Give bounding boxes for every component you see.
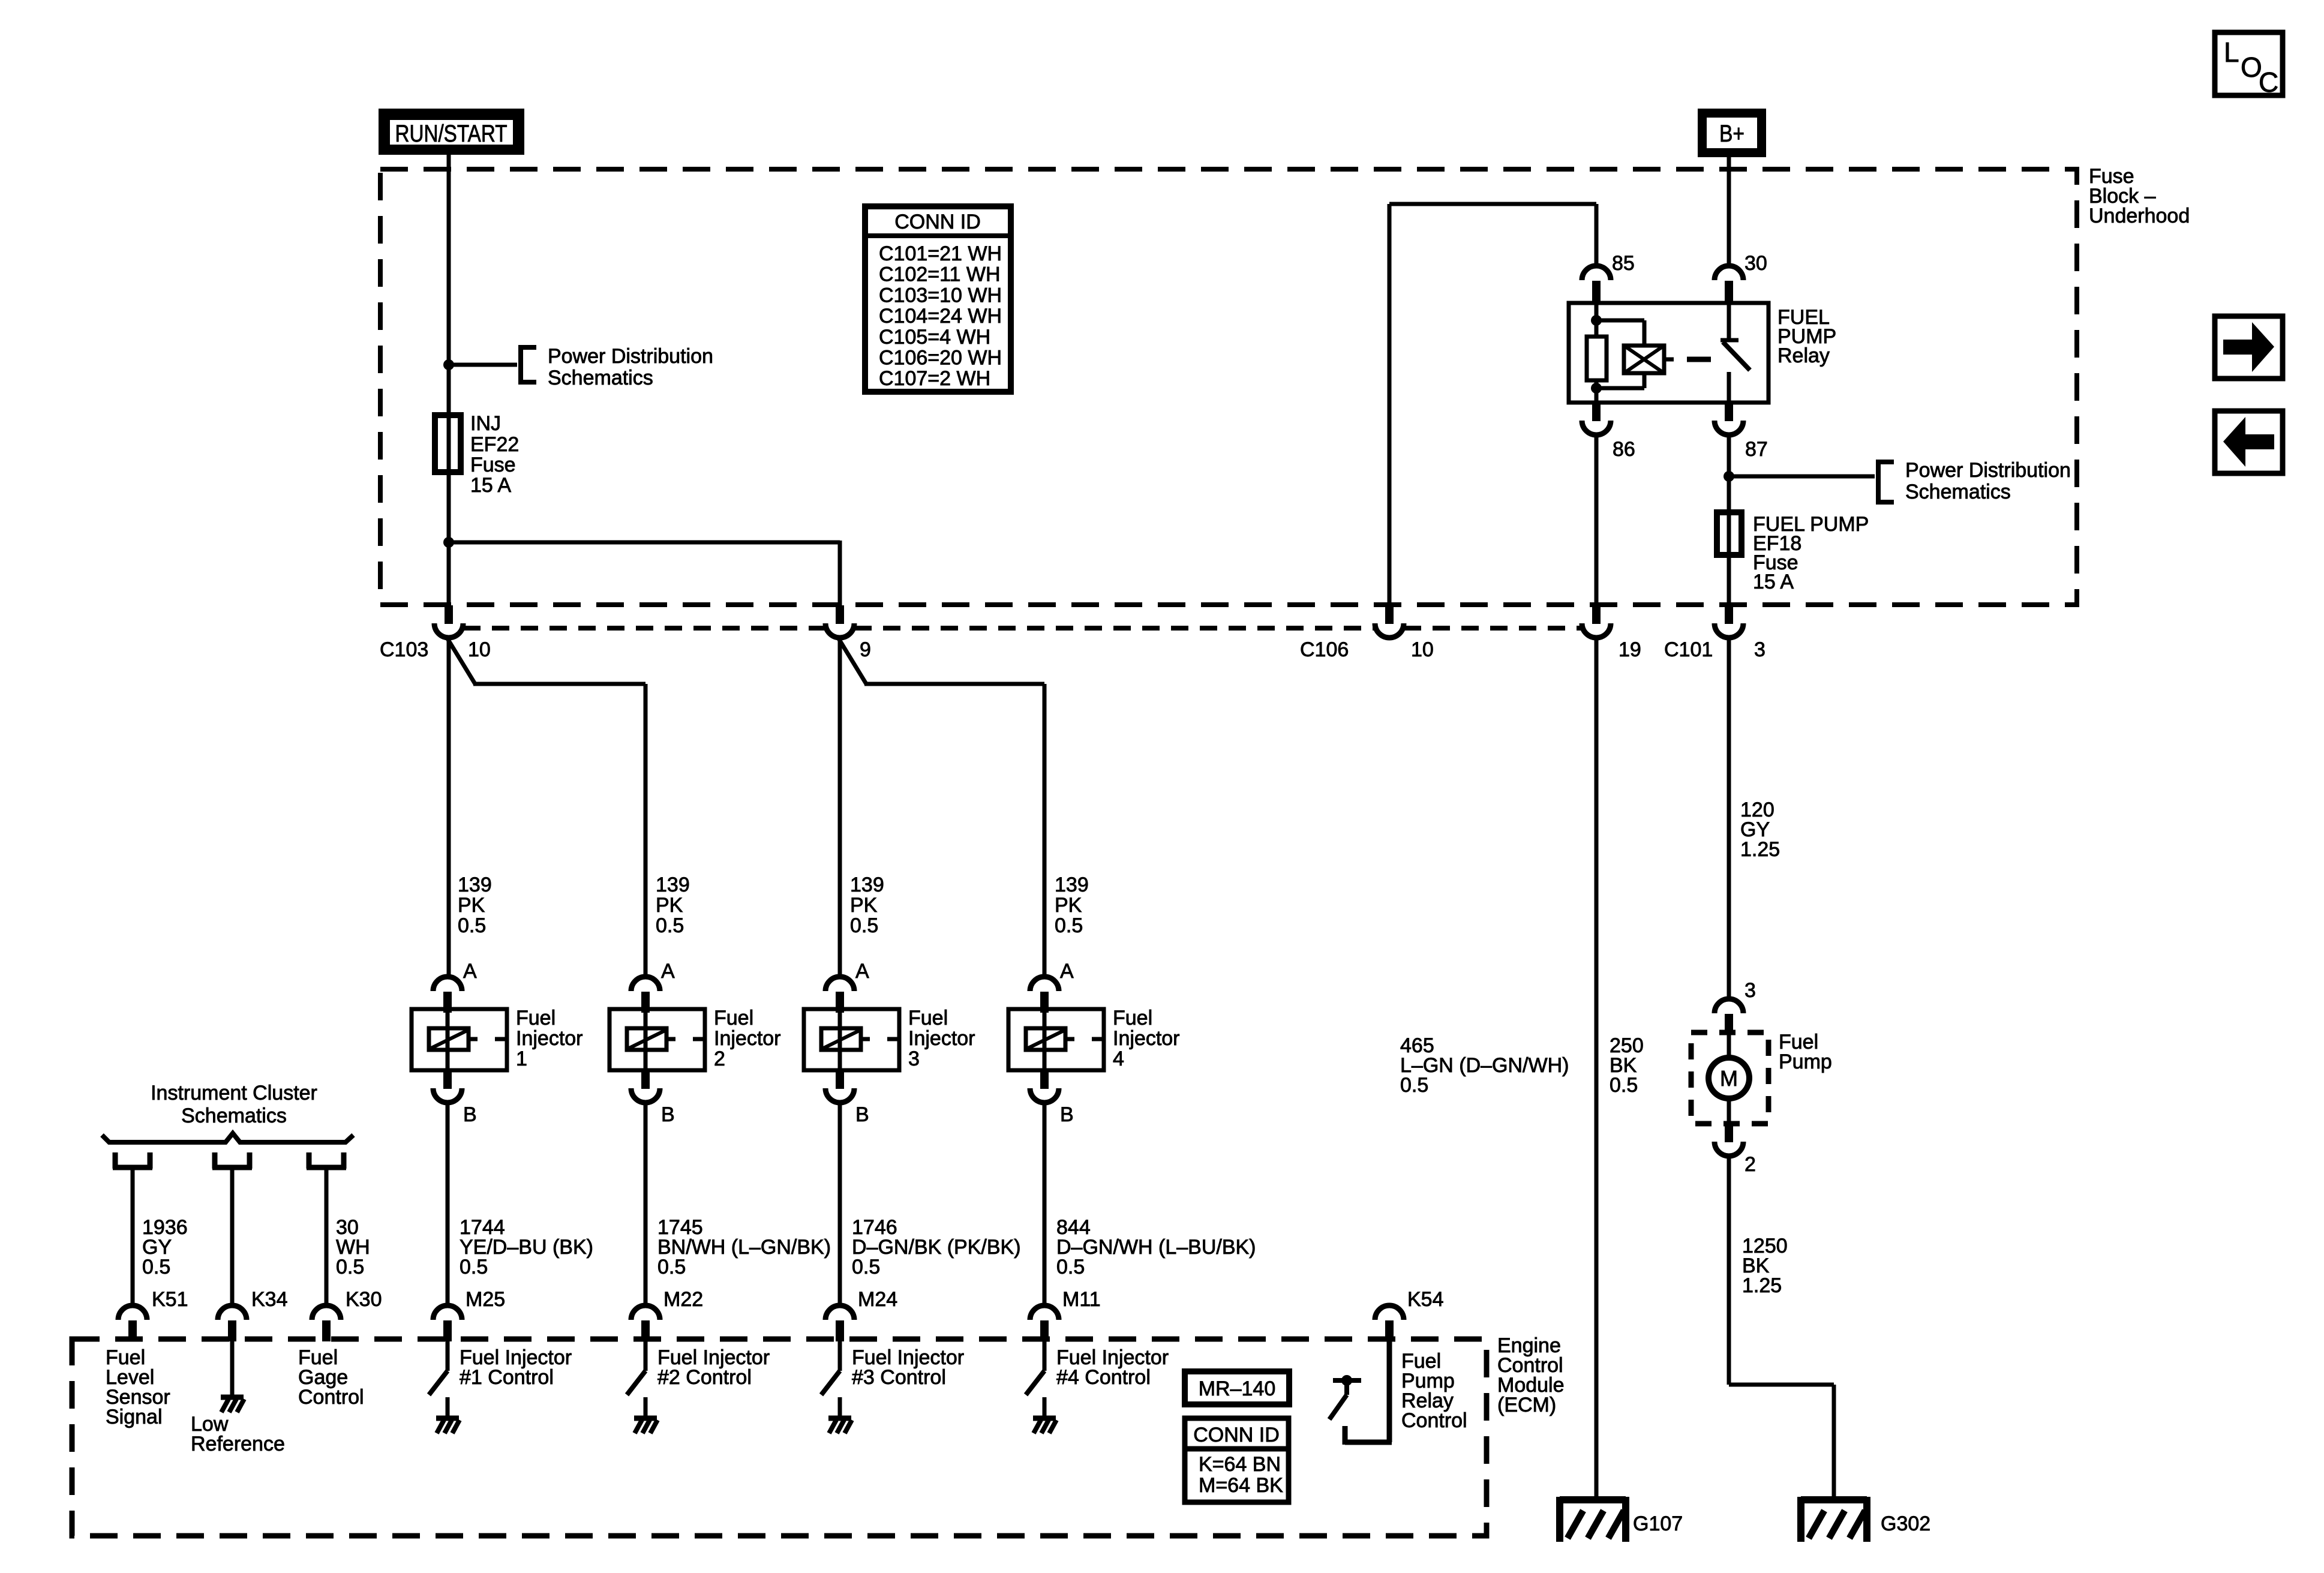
svg-text:A: A — [463, 960, 477, 983]
svg-text:Fuse: Fuse — [470, 454, 516, 476]
svg-text:139: 139 — [656, 873, 690, 896]
svg-text:1.25: 1.25 — [1740, 838, 1780, 861]
svg-text:B: B — [463, 1103, 477, 1126]
svg-text:CONN ID: CONN ID — [894, 211, 981, 233]
svg-text:MR–140: MR–140 — [1199, 1377, 1276, 1400]
page locator LOC box — [2215, 32, 2283, 98]
svg-text:86: 86 — [1613, 438, 1635, 461]
svg-text:G107: G107 — [1633, 1512, 1683, 1535]
label Fuel Gage Control — [298, 1346, 364, 1409]
connector injector 3 pin B — [825, 1070, 869, 1126]
ground G302 — [1801, 1497, 1930, 1542]
svg-text:Injector: Injector — [516, 1027, 583, 1050]
svg-text:0.5: 0.5 — [460, 1256, 488, 1278]
svg-text:M24: M24 — [858, 1288, 897, 1311]
svg-text:Injector: Injector — [1113, 1027, 1180, 1050]
connector C103 pin 10 — [380, 605, 491, 661]
label Fuel Injector #2 Control — [657, 1346, 770, 1389]
switch fuel injector #2 driver — [627, 1339, 645, 1416]
wire relay pin 85 feed (from C106 riser) — [1389, 204, 1596, 607]
label Fuel Injector 3 — [908, 1007, 975, 1070]
svg-text:B: B — [1060, 1103, 1074, 1126]
svg-text:M22: M22 — [663, 1288, 703, 1311]
svg-text:Underhood: Underhood — [2089, 205, 2190, 227]
svg-text:M25: M25 — [466, 1288, 505, 1311]
svg-text:Injector: Injector — [908, 1027, 975, 1050]
ground injector #2 driver — [634, 1418, 657, 1433]
svg-text:C101: C101 — [1664, 638, 1713, 661]
svg-text:C105=4 WH: C105=4 WH — [879, 326, 990, 349]
svg-text:C: C — [2259, 67, 2278, 98]
table CONN ID (ECM) — [1185, 1418, 1289, 1502]
svg-text:EF22: EF22 — [470, 433, 519, 456]
svg-text:19: 19 — [1619, 638, 1641, 661]
connector ECM pin K54 — [1375, 1288, 1444, 1341]
node junction feed to connector 9 branch — [443, 537, 454, 548]
switch fuel injector #1 driver — [429, 1339, 448, 1416]
svg-text:Signal: Signal — [106, 1406, 163, 1428]
svg-text:C104=24 WH: C104=24 WH — [879, 305, 1002, 328]
fuel injector 4 — [1008, 1009, 1104, 1070]
ground injector #1 driver — [436, 1418, 460, 1433]
svg-text:K54: K54 — [1407, 1288, 1444, 1311]
svg-text:Instrument Cluster: Instrument Cluster — [151, 1082, 317, 1104]
wire pin 86 down to C106 row — [1595, 435, 1599, 607]
wire K51 fuel level sensor signal — [131, 1170, 135, 1307]
svg-text:Control: Control — [1401, 1409, 1467, 1432]
switch fuel injector #3 driver — [821, 1339, 840, 1416]
connector pin 19 — [1582, 605, 1641, 661]
power symbol RUN/START — [383, 113, 520, 151]
svg-text:0.5: 0.5 — [656, 914, 684, 937]
svg-text:10: 10 — [1411, 638, 1434, 661]
svg-text:A: A — [855, 960, 869, 983]
label FUEL PUMP Relay — [1777, 306, 1836, 367]
svg-text:Power Distribution: Power Distribution — [1905, 459, 2071, 482]
node junction to Power Distribution tap — [443, 359, 454, 370]
wire RUN/START feed down to C103 — [447, 155, 451, 607]
svg-text:Schematics: Schematics — [181, 1104, 287, 1127]
svg-text:PK: PK — [1055, 894, 1082, 917]
svg-text:85: 85 — [1612, 252, 1635, 275]
connector ECM pin M11 — [1030, 1288, 1101, 1341]
connector ECM pin M24 — [825, 1288, 897, 1341]
svg-text:#2 Control: #2 Control — [657, 1366, 752, 1389]
svg-text:3: 3 — [1754, 638, 1765, 661]
connector pin 9 — [825, 605, 871, 661]
power symbol B+ — [1703, 113, 1762, 153]
dotted in-line connector line — [463, 626, 1582, 631]
connector ECM pin M22 — [631, 1288, 703, 1341]
svg-text:0.5: 0.5 — [1610, 1074, 1638, 1097]
label wire 844 D–GN/WH (L–BU/BK) 0.5 — [1056, 1216, 1256, 1278]
svg-text:Injector: Injector — [714, 1027, 781, 1050]
label wire 1746 D–GN/BK (PK/BK) 0.5 — [852, 1216, 1021, 1278]
relay mechanical link dash — [1687, 357, 1711, 362]
wire branch to injector 2 — [447, 638, 645, 978]
table CONN ID (fuse block) — [865, 206, 1011, 392]
fuse INJ EF22 15 A — [435, 415, 461, 472]
connector fuel pump pin 2 — [1715, 1124, 1756, 1176]
connector fuel pump pin 3 — [1715, 979, 1756, 1035]
svg-text:#4 Control: #4 Control — [1056, 1366, 1151, 1389]
wire pin 9 down to injector 3 — [838, 638, 842, 978]
ground low reference — [221, 1397, 244, 1412]
label wire 1936 GY 0.5 — [142, 1216, 188, 1278]
Fuse Block - Underhood dashed outline — [380, 169, 2077, 605]
connector injector 4 pin B — [1030, 1070, 1074, 1126]
label Power Distribution Schematics (right) — [1905, 459, 2071, 503]
svg-text:Schematics: Schematics — [1905, 481, 2011, 503]
nav arrow right — [2215, 316, 2283, 379]
svg-text:C107=2 WH: C107=2 WH — [879, 367, 990, 390]
wire branch over to pin 9 drop — [449, 541, 840, 545]
svg-text:M=64 BK: M=64 BK — [1199, 1474, 1283, 1497]
wire C106 to K54 (already drawn riser) label 465 L-GN (D-GN/WH) 0.5 — [1400, 1034, 1569, 1097]
connector pin 30 — [1715, 252, 1767, 302]
connector injector 2 pin B — [631, 1070, 675, 1126]
connector ECM pin K34 — [218, 1288, 288, 1341]
svg-text:D–GN/WH (L–BU/BK): D–GN/WH (L–BU/BK) — [1056, 1236, 1256, 1259]
svg-text:Fuel: Fuel — [714, 1007, 753, 1029]
svg-text:1.25: 1.25 — [1742, 1274, 1782, 1297]
wire branch to injector 4 — [838, 638, 1044, 978]
wire tap to Power Distribution bracket — [449, 363, 517, 367]
svg-text:0.5: 0.5 — [458, 914, 486, 937]
connector pin 85 — [1582, 252, 1635, 302]
wire pin 19 to ground G107 — [1595, 638, 1599, 1497]
fuse FUEL PUMP EF18 15 A — [1717, 512, 1742, 555]
svg-text:PK: PK — [458, 894, 485, 917]
node junction pin 87 tap — [1724, 471, 1734, 482]
wire C103-10 down to injector 1 — [447, 638, 451, 978]
wire K54 internal with hook — [1345, 1339, 1392, 1445]
relay switch — [1721, 303, 1750, 403]
svg-text:30: 30 — [1744, 252, 1767, 275]
svg-text:Fuel: Fuel — [516, 1007, 556, 1029]
wire pin 87 down through EF18 fuse — [1727, 435, 1731, 607]
svg-text:PK: PK — [656, 894, 683, 917]
label Power Distribution Schematics (left) — [548, 345, 713, 389]
connector injector 1 pin B — [433, 1070, 477, 1126]
svg-text:M: M — [1720, 1066, 1738, 1091]
label wire 139 PK 0.5 (injector 1) — [458, 873, 492, 937]
label Fuel Injector #4 Control — [1056, 1346, 1169, 1389]
svg-text:15 A: 15 A — [470, 474, 511, 497]
svg-text:Fuel: Fuel — [1113, 1007, 1152, 1029]
connector C106 pin 10 — [1300, 605, 1434, 661]
svg-text:139: 139 — [850, 873, 884, 896]
wire injector 3 to ECM — [838, 1103, 842, 1307]
label Low Reference — [191, 1413, 285, 1455]
wire B+ down to relay pin 30 — [1727, 157, 1731, 268]
label Fuel Pump Relay Control — [1401, 1350, 1467, 1432]
switch fuel injector #4 driver — [1026, 1339, 1044, 1416]
wire injector 2 to ECM — [644, 1103, 648, 1307]
relay coil resistor — [1587, 303, 1607, 403]
label Engine Control Module (ECM) — [1497, 1334, 1565, 1416]
wire K34 internal to ground — [230, 1339, 235, 1396]
svg-text:0.5: 0.5 — [657, 1256, 686, 1278]
label Fuel Injector #1 Control — [460, 1346, 572, 1389]
svg-text:0.5: 0.5 — [1056, 1256, 1085, 1278]
svg-text:0.5: 0.5 — [1400, 1074, 1428, 1097]
fuel injector 3 — [804, 1009, 899, 1070]
svg-text:C101=21 WH: C101=21 WH — [879, 242, 1002, 265]
wire K34 low reference — [230, 1170, 235, 1307]
svg-text:K30: K30 — [346, 1288, 382, 1311]
svg-text:Control: Control — [298, 1386, 364, 1409]
label Instrument Cluster Schematics — [151, 1082, 317, 1127]
label wire 250 BK 0.5 — [1610, 1034, 1644, 1097]
Engine Control Module dashed outline — [72, 1339, 1487, 1536]
svg-text:#1 Control: #1 Control — [460, 1366, 554, 1389]
svg-text:K34: K34 — [251, 1288, 288, 1311]
svg-text:0.5: 0.5 — [852, 1256, 880, 1278]
svg-text:139: 139 — [1055, 873, 1089, 896]
svg-text:C103=10 WH: C103=10 WH — [879, 284, 1002, 307]
label wire 139 PK 0.5 (injector 3) — [850, 873, 884, 937]
svg-text:C106: C106 — [1300, 638, 1349, 661]
svg-text:CONN ID: CONN ID — [1193, 1424, 1280, 1446]
brace instrument cluster — [102, 1133, 353, 1142]
svg-text:9: 9 — [860, 638, 871, 661]
svg-text:0.5: 0.5 — [142, 1256, 170, 1278]
label Fuel Injector 2 — [714, 1007, 781, 1070]
connector ECM pin K30 — [312, 1288, 382, 1341]
svg-text:87: 87 — [1745, 438, 1768, 461]
svg-text:RUN/START: RUN/START — [395, 121, 508, 147]
bracket Power Distribution (right) — [1876, 460, 1894, 505]
label Fuel Injector 1 — [516, 1007, 583, 1070]
label wire 139 PK 0.5 (injector 4) — [1055, 873, 1089, 937]
svg-text:L: L — [2224, 37, 2239, 68]
label Fuel Level Sensor Signal — [106, 1346, 170, 1428]
ground G107 — [1560, 1497, 1683, 1542]
connector pin 86 — [1582, 403, 1635, 461]
connector C101 pin 3 — [1664, 605, 1765, 661]
wire C101-3 down to fuel pump — [1727, 638, 1731, 1000]
svg-text:3: 3 — [908, 1047, 920, 1070]
svg-text:0.5: 0.5 — [850, 914, 878, 937]
fuel pump motor M — [1709, 1032, 1749, 1124]
svg-text:Pump: Pump — [1779, 1050, 1832, 1073]
ground injector #3 driver — [828, 1418, 852, 1433]
svg-text:#3 Control: #3 Control — [852, 1366, 946, 1389]
svg-text:C102=11 WH: C102=11 WH — [879, 263, 1001, 286]
connector ECM pin K51 — [118, 1288, 188, 1341]
wire tap to Power Distribution bracket (right) — [1729, 475, 1875, 479]
label wire 1744 YE/D–BU (BK) 0.5 — [460, 1216, 593, 1278]
svg-text:Fuel: Fuel — [908, 1007, 948, 1029]
svg-text:Reference: Reference — [191, 1433, 285, 1455]
label wire 1250 BK 1.25 — [1742, 1235, 1788, 1297]
svg-text:B+: B+ — [1719, 121, 1744, 147]
svg-text:K51: K51 — [152, 1288, 188, 1311]
label wire 1745 BN/WH (L–GN/BK) 0.5 — [657, 1216, 831, 1278]
fuel injector 2 — [609, 1009, 705, 1070]
label Fuel Injector #3 Control — [852, 1346, 964, 1389]
svg-text:M11: M11 — [1062, 1288, 1101, 1311]
fuel pump dashed box — [1691, 1032, 1768, 1124]
svg-text:3: 3 — [1744, 979, 1756, 1002]
svg-text:G302: G302 — [1881, 1512, 1930, 1535]
ground injector #4 driver — [1033, 1418, 1056, 1433]
svg-text:0.5: 0.5 — [336, 1256, 364, 1278]
svg-text:139: 139 — [458, 873, 492, 896]
wire injector 4 to ECM — [1043, 1103, 1047, 1307]
wire K30 fuel gage control — [325, 1170, 329, 1307]
svg-text:INJ: INJ — [470, 412, 501, 435]
svg-text:4: 4 — [1113, 1047, 1124, 1070]
instrument cluster terminal K51 — [113, 1152, 152, 1169]
label Fuel Injector 4 — [1113, 1007, 1180, 1070]
svg-text:C103: C103 — [380, 638, 428, 661]
svg-text:2: 2 — [714, 1047, 725, 1070]
svg-text:10: 10 — [468, 638, 491, 661]
wire fuel pump to ground G302 — [1729, 1156, 1834, 1497]
connector injector 2 pin A — [631, 960, 675, 1013]
svg-text:1: 1 — [516, 1047, 527, 1070]
svg-text:2: 2 — [1744, 1153, 1756, 1176]
label wire 120 GY 1.25 — [1740, 798, 1780, 861]
connector pin 87 — [1715, 403, 1768, 461]
svg-text:Relay: Relay — [1777, 344, 1830, 367]
svg-text:Schematics: Schematics — [548, 367, 653, 389]
relay coil parallel branch with solenoid box-X — [1596, 320, 1674, 388]
svg-text:PK: PK — [850, 894, 878, 917]
callout box MR-140 — [1185, 1371, 1289, 1404]
label wire 139 PK 0.5 (injector 2) — [656, 873, 690, 937]
connector injector 1 pin A — [433, 960, 477, 1013]
connector injector 4 pin A — [1030, 960, 1074, 1013]
label Fuse Block - Underhood — [2089, 165, 2190, 227]
label Fuel Pump — [1779, 1031, 1832, 1073]
svg-text:B: B — [661, 1103, 675, 1126]
nav arrow left — [2215, 411, 2283, 473]
wire injector 1 to ECM — [446, 1103, 450, 1307]
instrument cluster terminal K30 — [307, 1152, 346, 1169]
connector ECM pin M25 — [433, 1288, 505, 1341]
connector injector 3 pin A — [825, 960, 869, 1013]
svg-text:0.5: 0.5 — [1055, 914, 1083, 937]
svg-text:Power Distribution: Power Distribution — [548, 345, 713, 368]
node coil top — [1591, 315, 1602, 326]
svg-text:15 A: 15 A — [1753, 571, 1794, 593]
svg-text:(ECM): (ECM) — [1497, 1394, 1556, 1416]
svg-text:A: A — [661, 960, 675, 983]
bracket Power Distribution (left) — [518, 345, 536, 385]
switch fuel pump relay driver — [1329, 1375, 1361, 1419]
fuel injector 1 — [412, 1009, 507, 1070]
label wire 30 WH 0.5 — [336, 1216, 370, 1278]
label FUEL PUMP EF18 Fuse 15 A — [1753, 513, 1869, 593]
svg-text:C106=20 WH: C106=20 WH — [879, 347, 1002, 370]
instrument cluster terminal K34 — [212, 1152, 252, 1169]
svg-text:K=64 BN: K=64 BN — [1199, 1453, 1281, 1476]
svg-text:A: A — [1060, 960, 1074, 983]
label INJ EF22 Fuse 15 A — [470, 412, 519, 497]
svg-text:B: B — [855, 1103, 869, 1126]
relay FUEL PUMP Relay box — [1569, 303, 1768, 403]
node coil bottom — [1591, 383, 1602, 394]
wire drop to connector 9 — [838, 541, 842, 607]
